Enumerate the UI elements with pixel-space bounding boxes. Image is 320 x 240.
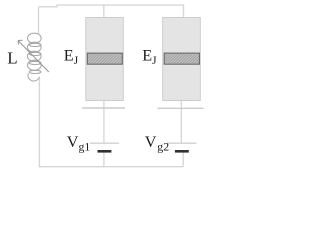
wire: top horizontal rail [39, 5, 184, 18]
wire: battery 1 to bottom rail [103, 152, 105, 167]
wire: left vertical lower segment [38, 78, 40, 167]
battery 2 short plate [175, 150, 189, 153]
wire: junction 1 bottom lead to gate capacitor [103, 101, 105, 143]
svg-text:L: L [7, 48, 17, 67]
battery 1 long plate [90, 142, 119, 144]
junction box 2 (electrode) [163, 18, 201, 101]
battery 2 long plate [167, 142, 197, 144]
wire: junction 1 top lead [103, 5, 105, 18]
battery 1 short plate [98, 150, 112, 153]
tuning arrow through inductor [18, 40, 49, 72]
tunnel barrier band of junction 1 [73, 52, 136, 66]
inductor L coil [28, 33, 42, 81]
gate capacitor plate 2 [158, 107, 204, 109]
wire: junction 2 bottom lead to gate capacitor [180, 101, 182, 143]
gate capacitor plate 1 [82, 107, 125, 109]
wire: left vertical upper segment [38, 7, 40, 34]
tunnel barrier band of junction 2 [150, 52, 213, 66]
wire: battery 2 to bottom rail [182, 152, 184, 167]
junction box 1 (electrode) [86, 18, 124, 101]
wire: bottom horizontal rail [39, 166, 184, 168]
